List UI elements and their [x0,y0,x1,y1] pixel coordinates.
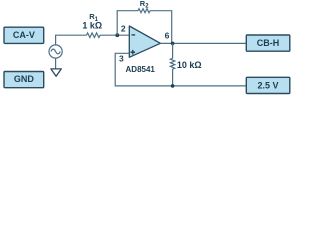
ground [51,69,61,76]
resistor R1 [87,33,101,38]
svg-text:3: 3 [119,53,124,63]
terminal CB-H [246,35,289,51]
wire: 10k bottom lead [172,69,174,86]
wire: R2 to output node [150,11,172,44]
svg-text:CA-V: CA-V [13,30,35,40]
svg-text:AD8541: AD8541 [126,65,156,74]
wire: output node down to 10k [172,43,174,58]
svg-text:CB-H: CB-H [257,38,280,48]
wire: pin 3 lead from 2.5V rail [115,53,246,86]
op-amp plus sign [131,50,136,55]
svg-text:GND: GND [14,74,35,84]
svg-text:2.5 V: 2.5 V [257,81,278,91]
terminal GND [4,72,44,88]
svg-text:6: 6 [165,30,170,40]
source V1 (sine source) [49,45,62,58]
terminal CA-V [4,27,44,43]
wire: source to ground [55,58,57,69]
resistor 10 kOhm [170,58,174,69]
node B: output junction [171,42,175,46]
svg-text:1 kΩ: 1 kΩ [82,20,102,30]
op-amp U1 AD8541 [129,26,160,57]
wire: R1 to junction to pin 2 [100,34,129,36]
node C: rail junction [171,84,175,88]
wire: main input wire from source corner to op-amp pin 2 [56,35,87,45]
terminal 2.5V [246,77,289,93]
node A: feedback tap junction [115,33,119,37]
wire: feedback up and along top [117,11,138,36]
svg-text:10 kΩ: 10 kΩ [177,60,202,70]
wire: output to CB-H [160,42,246,44]
svg-text:2: 2 [121,23,126,33]
resistor R2 [138,9,150,13]
op-amp minus sign [132,34,136,36]
